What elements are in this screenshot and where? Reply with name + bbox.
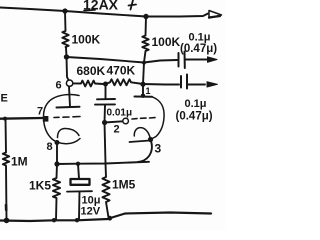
svg-text:470K: 470K	[107, 64, 136, 78]
svg-text:12AX: 12AX	[83, 0, 119, 13]
svg-text:1: 1	[146, 86, 151, 96]
svg-text:100K: 100K	[152, 35, 181, 49]
svg-text:E: E	[1, 93, 8, 105]
svg-text:100K: 100K	[72, 33, 101, 47]
svg-text:0.1μ: 0.1μ	[185, 98, 207, 110]
svg-text:1M5: 1M5	[112, 178, 136, 192]
svg-text:0.01μ: 0.01μ	[107, 108, 133, 119]
svg-text:680K: 680K	[77, 64, 106, 78]
svg-text:8: 8	[47, 141, 53, 153]
svg-text:12V: 12V	[81, 206, 101, 218]
svg-text:(0.47μ): (0.47μ)	[180, 43, 217, 55]
svg-text:1M: 1M	[11, 155, 28, 169]
svg-text:3: 3	[155, 142, 162, 156]
svg-text:(0.47μ): (0.47μ)	[176, 111, 213, 123]
svg-text:0.1μ: 0.1μ	[189, 32, 211, 44]
svg-text:2: 2	[114, 124, 120, 136]
svg-text:1K5: 1K5	[29, 179, 51, 193]
svg-text:7: 7	[37, 106, 43, 118]
svg-text:6: 6	[56, 80, 62, 92]
